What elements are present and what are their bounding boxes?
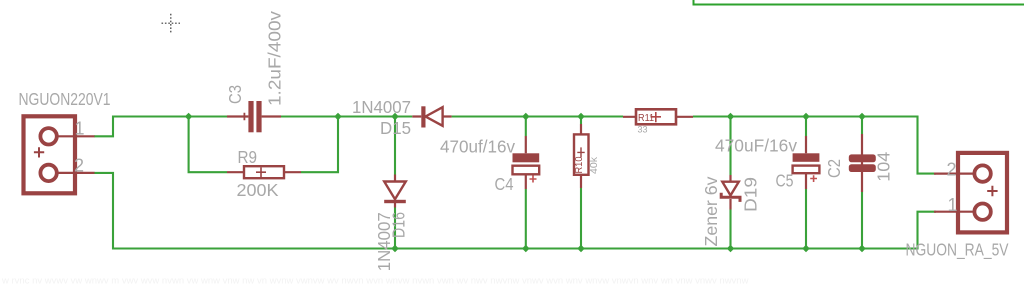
svg-text:R10: R10: [574, 156, 585, 173]
wire D16 branch: [394, 117, 396, 249]
connector X1 plus mark: [34, 147, 44, 157]
svg-text:33: 33: [638, 124, 648, 134]
svg-text:D15: D15: [380, 118, 411, 138]
svg-text:D16: D16: [389, 212, 409, 238]
connector X1 pin circles: [40, 128, 56, 181]
wire D19 branch: [729, 117, 731, 249]
zener diode D19: [721, 175, 740, 210]
svg-text:104: 104: [874, 152, 894, 182]
svg-text:1: 1: [75, 119, 85, 139]
wire R9 branch left: [189, 117, 227, 173]
wire bottom rail: [94, 173, 936, 249]
wire R9 branch right: [301, 117, 338, 173]
resistor R9: [227, 166, 301, 178]
diode D15: [412, 106, 451, 127]
svg-text:C2: C2: [824, 159, 844, 178]
connector X1 NGUON220V1 body: [24, 116, 95, 193]
svg-text:w rvnc nv wvwv vw wnwv m vwv w: w rvnc nv wvwv vw wnwv m vwv wvw nvwn vw…: [1, 276, 749, 285]
connector NGUON_RA_5V body: [934, 153, 1007, 233]
wire C2 branch: [861, 117, 863, 249]
connector NGUON_RA_5V plus mark: [987, 186, 997, 196]
svg-text:Zener 6v: Zener 6v: [701, 176, 721, 246]
svg-text:1.2uF/400v: 1.2uF/400v: [265, 11, 285, 106]
wire C4 branch: [525, 117, 527, 249]
capacitor C4: [513, 136, 540, 189]
svg-text:D19: D19: [740, 177, 760, 212]
svg-text:C3: C3: [225, 85, 245, 104]
junction nodes top rail: [185, 113, 866, 121]
cursor crosshair: [162, 14, 181, 33]
svg-text:40k: 40k: [589, 156, 600, 174]
svg-text:C5: C5: [776, 170, 794, 190]
svg-text:R11: R11: [638, 112, 654, 124]
wire top rail R11 to output pin2: [693, 117, 936, 174]
wire R10 branch: [580, 117, 582, 249]
junction nodes bottom rail: [391, 245, 866, 253]
wire C5 branch: [805, 117, 807, 249]
resistor R10: [574, 124, 589, 188]
svg-text:470uf/16v: 470uf/16v: [440, 136, 515, 156]
svg-text:NGUON_RA_5V: NGUON_RA_5V: [906, 239, 1009, 260]
svg-text:1N4007: 1N4007: [352, 97, 411, 117]
connector NGUON_RA_5V pin circles: [974, 165, 990, 219]
svg-text:C4: C4: [495, 174, 514, 194]
wire top rail C3 to D15: [281, 115, 412, 117]
svg-text:NGUON220V1: NGUON220V1: [19, 89, 111, 109]
resistor R11: [623, 109, 693, 124]
svg-text:R9: R9: [238, 147, 258, 167]
capacitor C2: [849, 134, 876, 192]
capacitor C3: [227, 101, 281, 132]
wire top rail D15 to R11: [452, 115, 623, 117]
wire top rail from pin1: [94, 117, 227, 137]
svg-text:2: 2: [74, 156, 84, 176]
svg-text:200K: 200K: [237, 180, 279, 200]
svg-text:470uF/16v: 470uF/16v: [715, 136, 797, 156]
capacitor C5: [793, 136, 820, 189]
svg-text:2: 2: [947, 159, 957, 179]
svg-text:1: 1: [948, 195, 958, 215]
faint bottom artifact band: [1, 276, 749, 285]
diode D16: [384, 175, 406, 208]
selection box corner top-right: [694, 0, 1024, 5]
